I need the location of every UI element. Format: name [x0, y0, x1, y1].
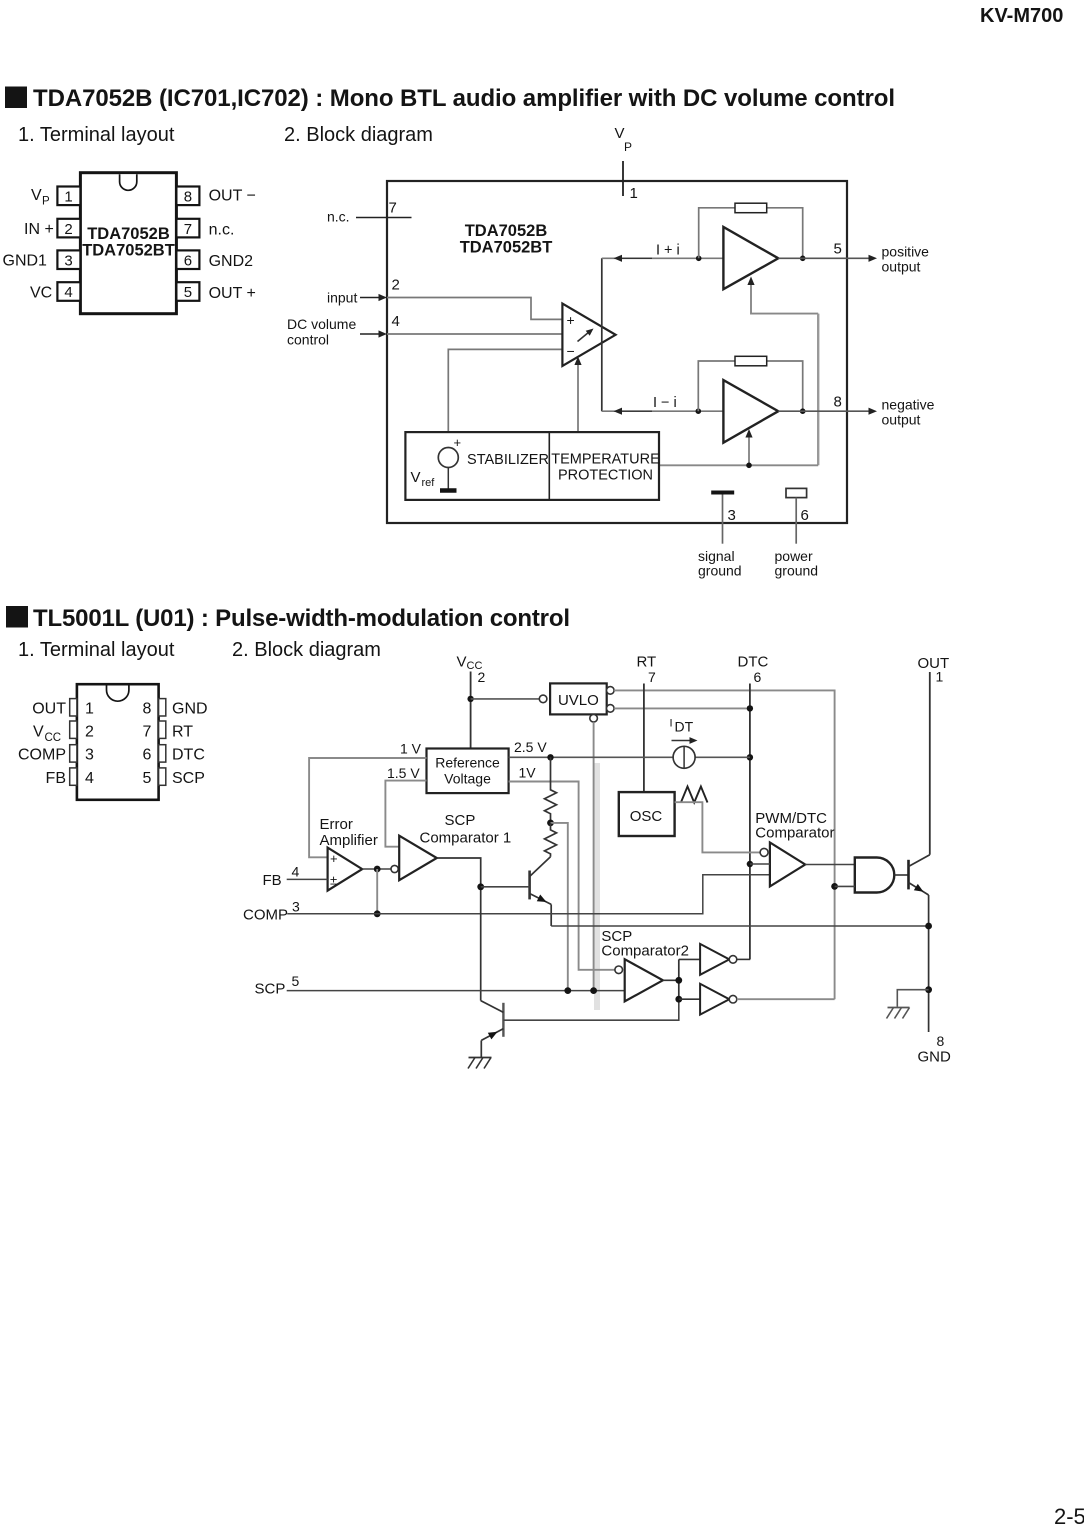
svg-text:Amplifier: Amplifier	[320, 832, 378, 849]
pin number 5 (SCP)	[292, 973, 300, 989]
feedback resistor lower	[735, 356, 767, 366]
feedback resistor upper	[735, 203, 767, 213]
svg-text:1: 1	[630, 185, 638, 202]
arrow IDT direction	[672, 737, 698, 744]
svg-text:KV-M700: KV-M700	[980, 5, 1063, 27]
pin label VP	[31, 187, 50, 208]
svg-text:ground: ground	[775, 563, 819, 579]
svg-text:V: V	[411, 469, 421, 486]
pin number 3 (COMP)	[292, 899, 300, 915]
U01 pin stub 8	[159, 699, 166, 716]
wire to Q1 base	[481, 886, 530, 888]
svg-text:8: 8	[184, 189, 192, 206]
AND gate	[855, 858, 895, 893]
svg-text:OUT: OUT	[32, 701, 66, 718]
pin number 3	[728, 507, 736, 524]
junction node VCC	[467, 696, 473, 702]
junction DTC-UVLO	[747, 705, 753, 711]
U01 pin number 5	[143, 770, 152, 787]
UVLO output bubble bottom	[590, 715, 598, 723]
U01 pin stub 3	[70, 745, 77, 762]
svg-text:COMP: COMP	[18, 747, 66, 764]
pin number 6 (DTC)	[754, 669, 762, 685]
svg-text:8: 8	[937, 1033, 945, 1049]
U01 notch	[107, 686, 129, 702]
feedback loop upper wire	[699, 208, 803, 258]
svg-text:DC volume: DC volume	[287, 316, 356, 332]
svg-text:TEMPERATURE: TEMPERATURE	[551, 452, 660, 468]
svg-text:7: 7	[389, 200, 397, 217]
svg-text:I − i: I − i	[653, 395, 677, 411]
section 1 heading text	[33, 85, 895, 112]
svg-text:IN +: IN +	[24, 221, 54, 238]
label VCC (pin 2)	[457, 654, 483, 672]
divider resistor upper	[545, 757, 557, 823]
svg-text:1 V: 1 V	[400, 741, 422, 757]
bubble SCP comparator1 input	[391, 865, 398, 872]
label TDA7052B (diagram)	[465, 222, 548, 240]
U01 pin stub 1	[70, 699, 77, 716]
svg-text:+: +	[454, 435, 462, 450]
bias riser wire	[817, 314, 819, 466]
pin number 5	[834, 241, 842, 258]
wire OSC output to PWM comparator	[675, 802, 761, 852]
svg-text:DTC: DTC	[172, 747, 205, 764]
OSC block	[619, 792, 675, 836]
label COMP (pin 3)	[243, 907, 288, 924]
label DC volume control	[287, 316, 356, 348]
pin number 2	[392, 277, 400, 294]
Vref ground	[440, 468, 457, 491]
transistor Q3 collector	[909, 855, 930, 867]
pin number 8	[834, 394, 842, 411]
subheading 2. Block diagram	[284, 124, 433, 146]
svg-text:1.5 V: 1.5 V	[387, 765, 420, 781]
svg-text:SCP: SCP	[445, 812, 476, 829]
U01 label FB	[46, 770, 66, 787]
svg-text:1V: 1V	[519, 765, 537, 781]
junction node lower input	[696, 408, 702, 414]
wire error amp output	[362, 868, 391, 870]
pin number 7	[389, 200, 397, 217]
svg-text:FB: FB	[46, 770, 66, 787]
svg-text:Comparator 1: Comparator 1	[420, 830, 512, 847]
U01 pin stub 5	[159, 768, 166, 785]
svg-text:RT: RT	[637, 654, 657, 671]
svg-text:2. Block diagram: 2. Block diagram	[232, 639, 381, 661]
svg-text:Error: Error	[320, 816, 353, 833]
junction AND lower input	[831, 883, 838, 890]
label error amp plusminus	[330, 873, 337, 888]
section 1 heading bullet	[5, 87, 27, 109]
junction divider node	[547, 820, 554, 827]
svg-text:output: output	[882, 259, 921, 275]
label n.c.	[327, 209, 350, 225]
U01 pin number 6	[143, 747, 152, 764]
bias arrow into negative amp	[745, 429, 752, 465]
svg-text:UVLO: UVLO	[558, 692, 599, 709]
svg-text:7: 7	[143, 724, 152, 741]
U01 pin number 4	[85, 770, 94, 787]
U01 pin number 1	[85, 701, 94, 718]
wire DTC to PWM input	[750, 863, 770, 865]
U01 pin number 2	[85, 724, 94, 741]
label SCP Comparator2	[601, 928, 689, 960]
wire SCP comp2 output	[663, 959, 679, 999]
junction 2.5V divider	[547, 754, 553, 760]
label + input	[567, 312, 575, 328]
svg-text:ref: ref	[422, 477, 436, 489]
svg-text:GND: GND	[172, 701, 208, 718]
label IDT	[670, 718, 694, 735]
SCP comparator 2 triangle	[625, 959, 663, 1001]
pin number 2 (VCC)	[478, 669, 486, 685]
junction comp2 output	[675, 977, 682, 984]
svg-text:6: 6	[754, 669, 762, 685]
label positive output	[882, 244, 930, 275]
svg-text:2.5 V: 2.5 V	[514, 739, 547, 755]
pin 4 control arrow	[360, 330, 387, 337]
svg-text:SCP: SCP	[255, 981, 286, 998]
svg-text:CC: CC	[45, 732, 62, 744]
pin 5 box	[176, 282, 199, 301]
wire I+i	[602, 257, 724, 259]
UVLO block	[550, 683, 607, 714]
subheading 2. Block diagram (TL5001)	[232, 639, 381, 661]
wire VCC to UVLO	[471, 698, 540, 700]
pin label GND1	[3, 253, 48, 270]
label TDA7052BT (diagram)	[460, 239, 553, 257]
svg-text:V: V	[457, 654, 467, 671]
wire Q1 emitter bus to output	[551, 925, 928, 927]
label TEMPERATURE PROTECTION	[551, 452, 660, 484]
buffer 1 triangle	[700, 944, 729, 975]
wire control to amp	[387, 333, 562, 335]
pin number 4	[392, 313, 400, 330]
U01 pin number 7	[143, 724, 152, 741]
svg-text:DTC: DTC	[738, 654, 769, 671]
pin label OUT -	[209, 188, 256, 205]
label 1.5 V	[387, 765, 420, 781]
wire COMP to PWM comparator	[287, 875, 770, 914]
svg-text:+: +	[330, 851, 338, 866]
U01 label SCP	[172, 770, 205, 787]
svg-text:DT: DT	[675, 719, 694, 735]
svg-text:ground: ground	[698, 563, 742, 579]
wire DTC rail	[749, 684, 751, 960]
pin 2 input arrow	[360, 294, 387, 301]
IC701 notch	[120, 174, 137, 190]
label 1 V	[400, 741, 422, 757]
label 2.5 V	[514, 739, 547, 755]
pin 1 box	[57, 187, 80, 206]
svg-text:GND2: GND2	[209, 253, 254, 270]
wire PWM output to AND gate	[805, 864, 855, 866]
transistor Q2 emitter	[481, 1029, 503, 1057]
svg-text:2-5: 2-5	[1054, 1504, 1084, 1525]
pin 7 n.c. lead	[356, 217, 412, 219]
pin number 7 (RT)	[648, 669, 656, 685]
svg-text:n.c.: n.c.	[327, 209, 350, 225]
buffer 2 bubble	[729, 995, 737, 1003]
junction node bias	[746, 463, 752, 469]
wire 1.5V to SCP comparator 1	[385, 781, 426, 847]
buffer 1 bubble	[729, 956, 737, 964]
transistor Q3 emitter	[909, 883, 929, 1033]
svg-text:±: ±	[330, 873, 337, 888]
stabilizer block	[405, 432, 659, 500]
U01 label GND	[172, 701, 208, 718]
svg-text:TDA7052B (IC701,IC702) : Mono: TDA7052B (IC701,IC702) : Mono BTL audio …	[33, 85, 895, 112]
label I + i	[656, 243, 680, 259]
svg-text:1: 1	[64, 189, 72, 206]
output amplifier positive U1b	[723, 227, 778, 289]
U01 label DTC	[172, 747, 205, 764]
svg-text:−: −	[567, 343, 575, 359]
wire input to amp	[387, 298, 562, 320]
label power ground	[775, 548, 819, 579]
svg-text:COMP: COMP	[243, 907, 288, 924]
wire positive output pin 5	[778, 255, 877, 262]
U01 package body TL5001L	[77, 684, 159, 800]
svg-text:7: 7	[648, 669, 656, 685]
svg-text:4: 4	[292, 864, 300, 880]
junction node lower output	[800, 408, 806, 414]
pin number 1 (OUT)	[936, 669, 944, 685]
UVLO output bubble lower	[607, 705, 615, 713]
wire to buffer1	[679, 958, 700, 960]
svg-text:output: output	[882, 412, 921, 428]
pin 3 signal ground symbol	[711, 493, 734, 544]
junction DTC-PWM input	[747, 861, 753, 867]
svg-text:1: 1	[85, 701, 94, 718]
svg-text:4: 4	[85, 770, 94, 787]
svg-text:2: 2	[64, 221, 72, 238]
svg-text:Comparator: Comparator	[755, 825, 834, 842]
svg-text:I: I	[670, 718, 673, 730]
svg-text:1. Terminal layout: 1. Terminal layout	[18, 639, 175, 661]
transistor Q1 base bar	[528, 871, 531, 900]
divider resistor lower	[545, 823, 557, 857]
U01 pin number 3	[85, 747, 94, 764]
Vref source circle	[438, 435, 461, 468]
wire I-i	[602, 410, 724, 412]
U01 label RT	[172, 724, 193, 741]
U01 pin stub 6	[159, 745, 166, 762]
svg-text:OUT: OUT	[918, 655, 950, 672]
pin 2 box	[57, 219, 80, 238]
U01 pin stub 4	[70, 768, 77, 785]
junction node upper output	[800, 255, 806, 261]
wire buffer1 to DTC rail	[737, 958, 750, 960]
transistor Q1 emitter	[530, 894, 552, 927]
svg-text:GND: GND	[918, 1049, 952, 1066]
svg-text:I + i: I + i	[656, 243, 680, 259]
svg-text:5: 5	[834, 241, 842, 258]
pin label GND2	[209, 253, 254, 270]
label Error Amplifier	[320, 816, 378, 849]
svg-text:+: +	[567, 312, 575, 328]
pin 6 power ground symbol	[786, 488, 807, 543]
chassis ground right	[887, 1008, 910, 1019]
arrow symbol I+i	[614, 255, 653, 262]
svg-text:P: P	[42, 196, 50, 208]
buffer 2 triangle	[700, 984, 729, 1015]
wire FB lead	[287, 878, 328, 880]
pin 6 box	[176, 250, 199, 269]
bubble PWM comparator input	[760, 848, 768, 856]
pin number 8 (GND)	[937, 1033, 945, 1049]
wire divider node to SCP line	[551, 823, 568, 991]
U01 pin stub 2	[70, 721, 77, 738]
vertical bus through input amp	[601, 258, 603, 411]
SCP comparator 1 triangle	[399, 836, 437, 881]
wire AND lower input	[835, 885, 855, 887]
sawtooth symbol	[681, 787, 708, 803]
gain control arrow inside amp	[578, 329, 594, 342]
U01 label COMP	[18, 747, 66, 764]
error amplifier triangle	[328, 848, 363, 891]
svg-text:4: 4	[392, 313, 400, 330]
svg-text:OUT +: OUT +	[209, 285, 256, 302]
wire SCP line	[287, 990, 625, 992]
subheading 1. Terminal layout	[18, 124, 175, 146]
wire negative output pin 8	[778, 408, 877, 415]
svg-text:V: V	[31, 187, 42, 204]
svg-text:5: 5	[143, 770, 152, 787]
svg-text:1: 1	[936, 669, 944, 685]
svg-text:8: 8	[143, 701, 152, 718]
wire UVLO upper output to AND rail	[614, 690, 835, 999]
UVLO input bubble	[539, 695, 547, 703]
svg-text:2: 2	[85, 724, 94, 741]
section 2 heading bullet	[6, 606, 28, 628]
svg-text:3: 3	[85, 747, 94, 764]
U01 pin number 8	[143, 701, 152, 718]
label FB (pin 4)	[263, 872, 282, 889]
wire error output to COMP	[376, 869, 378, 914]
U01 label OUT	[32, 701, 66, 718]
svg-text:RT: RT	[172, 724, 193, 741]
svg-text:8: 8	[834, 394, 842, 411]
svg-text:2: 2	[392, 277, 400, 294]
pin 1 supply lead	[622, 161, 624, 196]
wire VCC lead	[470, 672, 472, 749]
wire temperature protection to bias	[659, 464, 818, 466]
svg-text:V: V	[33, 724, 44, 741]
transistor Q1 collector	[530, 857, 551, 877]
pin label OUT +	[209, 285, 256, 302]
transistor Q2 collector	[481, 1001, 504, 1013]
svg-text:SCP: SCP	[172, 770, 205, 787]
svg-text:GND1: GND1	[3, 253, 48, 270]
pin number 1	[630, 185, 638, 202]
wire to chassis ground right	[897, 990, 928, 1007]
pin label VC	[30, 285, 52, 302]
svg-text:TL5001L (U01) : Pulse-width-mo: TL5001L (U01) : Pulse-width-modulation c…	[33, 605, 570, 632]
svg-text:1. Terminal layout: 1. Terminal layout	[18, 124, 175, 146]
label - input	[567, 343, 575, 359]
label I - i	[653, 395, 677, 411]
wire AND output to Q3	[894, 874, 908, 876]
svg-text:control: control	[287, 332, 329, 348]
svg-text:6: 6	[801, 507, 809, 524]
bias arrow into positive amp	[747, 277, 818, 314]
IC701 package body TDA7052B	[80, 173, 176, 314]
label DTC (pin 6)	[738, 654, 769, 671]
junction SCP divider	[564, 987, 571, 994]
wire RT lead to OSC	[643, 684, 645, 793]
svg-text:6: 6	[143, 747, 152, 764]
label GND (pin 8)	[918, 1049, 952, 1066]
label VP supply	[615, 125, 633, 154]
svg-text:5: 5	[184, 284, 192, 301]
wire 2.5V rail	[509, 756, 750, 758]
svg-text:6: 6	[184, 252, 192, 269]
label RT (pin 7)	[637, 654, 657, 671]
input amplifier U1a	[562, 304, 615, 366]
svg-text:TDA7052BT: TDA7052BT	[460, 239, 553, 257]
page header model label KV-M700	[980, 5, 1063, 27]
svg-text:STABILIZER: STABILIZER	[467, 452, 549, 468]
label 1V (right)	[519, 765, 537, 781]
wire 1V to SCP comparator 2	[509, 782, 615, 970]
pin 7 box	[176, 219, 199, 238]
svg-text:7: 7	[184, 221, 192, 238]
pin 4 box	[57, 282, 80, 301]
svg-text:OUT −: OUT −	[209, 188, 256, 205]
transistor Q3 base bar	[907, 860, 910, 890]
svg-text:FB: FB	[263, 872, 282, 889]
current source IDT	[673, 746, 695, 768]
svg-text:3: 3	[728, 507, 736, 524]
svg-text:OSC: OSC	[630, 808, 663, 825]
svg-text:TDA7052BT: TDA7052BT	[82, 242, 175, 260]
wire UVLO lower output to DTC rail	[614, 707, 750, 709]
svg-text:PROTECTION: PROTECTION	[558, 468, 653, 484]
svg-text:3: 3	[292, 899, 300, 915]
IC701 label TDA7052BT	[82, 242, 175, 260]
transistor Q2 base bar	[502, 1003, 504, 1037]
UVLO output bubble upper	[607, 687, 615, 695]
label negative output	[882, 397, 935, 428]
junction node upper input	[696, 255, 702, 261]
junction Q3 emitter bus	[925, 923, 932, 930]
wire 1V to error amp	[309, 758, 426, 857]
svg-text:TDA7052B: TDA7052B	[465, 222, 548, 240]
pin label n.c.	[209, 222, 235, 239]
junction SCP UVLO	[590, 987, 597, 994]
svg-text:VC: VC	[30, 285, 52, 302]
svg-text:negative: negative	[882, 397, 935, 413]
wire Vref to amp minus input	[448, 349, 562, 447]
label Vref	[411, 469, 436, 489]
chassis ground Q2	[468, 1058, 492, 1069]
wire UVLO bottom to SCP line	[593, 722, 595, 991]
pin number 6	[801, 507, 809, 524]
U01 label VCC	[33, 724, 61, 745]
wire SCP comp1 output	[437, 858, 481, 1001]
label error amp +	[330, 851, 338, 866]
pin 3 box	[57, 250, 80, 269]
svg-text:Comparator2: Comparator2	[601, 943, 689, 960]
PWM comparator triangle	[770, 843, 805, 887]
svg-text:TDA7052B: TDA7052B	[87, 225, 170, 243]
svg-text:V: V	[615, 125, 625, 142]
label OUT (pin 1)	[918, 655, 950, 672]
svg-text:4: 4	[64, 284, 72, 301]
subheading 1. Terminal layout (TL5001)	[18, 639, 175, 661]
